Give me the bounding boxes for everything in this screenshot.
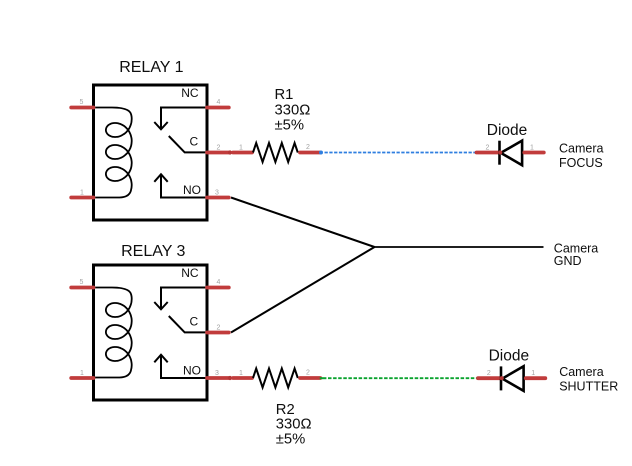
relay 3 NO contact xyxy=(154,355,207,378)
svg-text:2: 2 xyxy=(486,145,490,152)
resistor R2 value label xyxy=(276,402,312,448)
resistor R1 pin 2 stub xyxy=(300,151,320,155)
svg-text:RELAY 3: RELAY 3 xyxy=(121,243,185,260)
svg-text:GND: GND xyxy=(554,254,582,268)
svg-text:Camera: Camera xyxy=(559,365,604,379)
svg-text:1: 1 xyxy=(80,189,84,196)
svg-text:R2: R2 xyxy=(276,402,295,418)
svg-text:1: 1 xyxy=(239,145,243,152)
relay 3 NC contact xyxy=(154,288,207,310)
resistor R2 junction dot xyxy=(228,376,232,380)
svg-text:FOCUS: FOCUS xyxy=(559,156,603,170)
label Camera GND xyxy=(554,241,599,268)
relay 1 NO contact xyxy=(154,174,207,197)
wire relay1 NO pin to GND junction xyxy=(231,198,375,248)
svg-text:C: C xyxy=(190,315,199,329)
diode D2 pin 2 stub xyxy=(478,376,501,380)
resistor R2 body xyxy=(253,369,298,388)
svg-text:R1: R1 xyxy=(275,87,294,103)
svg-text:NC: NC xyxy=(181,86,199,100)
svg-text:C: C xyxy=(190,135,199,149)
resistor R1 value label xyxy=(275,87,311,134)
wire GND junction to Camera GND xyxy=(375,246,544,248)
wire relay3 C pin to GND junction xyxy=(231,247,375,333)
svg-text:1: 1 xyxy=(530,145,534,152)
relay 1 common contact arm xyxy=(169,136,207,152)
resistor R2 pin 1 stub xyxy=(233,376,252,380)
diode D1 symbol xyxy=(498,141,522,166)
relay 1 body xyxy=(94,85,208,220)
wire dashed green SHUTTER net xyxy=(320,377,477,379)
svg-text:2: 2 xyxy=(217,325,221,332)
relay 3 coil pin 5 stub xyxy=(71,286,93,290)
diode D1 pin 2 stub xyxy=(477,151,500,155)
relay 3 common contact arm xyxy=(169,316,207,332)
svg-text:4: 4 xyxy=(217,279,221,286)
label Camera SHUTTER xyxy=(559,365,618,393)
svg-text:4: 4 xyxy=(217,99,221,106)
svg-text:1: 1 xyxy=(239,370,243,377)
svg-text:330Ω: 330Ω xyxy=(276,417,312,433)
svg-text:NO: NO xyxy=(183,364,201,378)
relay 1 NC contact xyxy=(154,108,207,130)
svg-text:RELAY 1: RELAY 1 xyxy=(119,59,183,76)
svg-text:±5%: ±5% xyxy=(275,118,305,134)
svg-text:5: 5 xyxy=(80,99,84,106)
svg-text:NC: NC xyxy=(181,266,199,280)
wire dashed blue FOCUS net xyxy=(319,151,475,155)
relay 3 NO pin 3 stub xyxy=(207,376,229,380)
svg-text:2: 2 xyxy=(487,370,491,377)
relay 1 NO pin 3 stub xyxy=(207,196,229,200)
diode D2 symbol xyxy=(500,366,524,391)
relay 3 NC pin 4 stub xyxy=(207,286,229,290)
svg-text:2: 2 xyxy=(306,369,310,376)
svg-text:3: 3 xyxy=(215,370,219,377)
relay 3 C pin 2 stub xyxy=(207,331,229,335)
diode D1 pin 1 stub xyxy=(524,151,544,155)
svg-text:5: 5 xyxy=(80,279,84,286)
svg-text:3: 3 xyxy=(215,189,219,196)
svg-text:NO: NO xyxy=(183,183,201,197)
svg-text:2: 2 xyxy=(306,144,310,151)
diode D2 pin 1 stub xyxy=(526,376,546,380)
relay 1 coil xyxy=(94,108,132,198)
resistor R1 junction dot xyxy=(228,150,232,154)
svg-text:330Ω: 330Ω xyxy=(275,102,311,118)
resistor R1 body xyxy=(253,143,298,162)
relay 3 coil xyxy=(94,288,132,378)
resistor R2 pin 2 stub xyxy=(300,376,320,380)
svg-text:SHUTTER: SHUTTER xyxy=(559,380,618,394)
relay 1 C pin 2 stub xyxy=(207,151,229,155)
svg-text:1: 1 xyxy=(531,370,535,377)
relay 3 coil pin 1 stub xyxy=(71,376,93,380)
resistor R1 pin 1 stub xyxy=(233,151,252,155)
relay 1 NC pin 4 stub xyxy=(207,106,229,110)
svg-text:Diode: Diode xyxy=(487,122,528,139)
relay 1 coil pin 1 stub xyxy=(71,196,93,200)
svg-text:Camera: Camera xyxy=(559,142,604,156)
relay 3 body xyxy=(94,265,208,400)
svg-text:Diode: Diode xyxy=(489,348,529,365)
label Camera FOCUS xyxy=(559,142,604,170)
relay 1 coil pin 5 stub xyxy=(71,106,93,110)
svg-text:±5%: ±5% xyxy=(276,431,306,447)
svg-text:1: 1 xyxy=(80,370,84,377)
svg-text:2: 2 xyxy=(217,145,221,152)
